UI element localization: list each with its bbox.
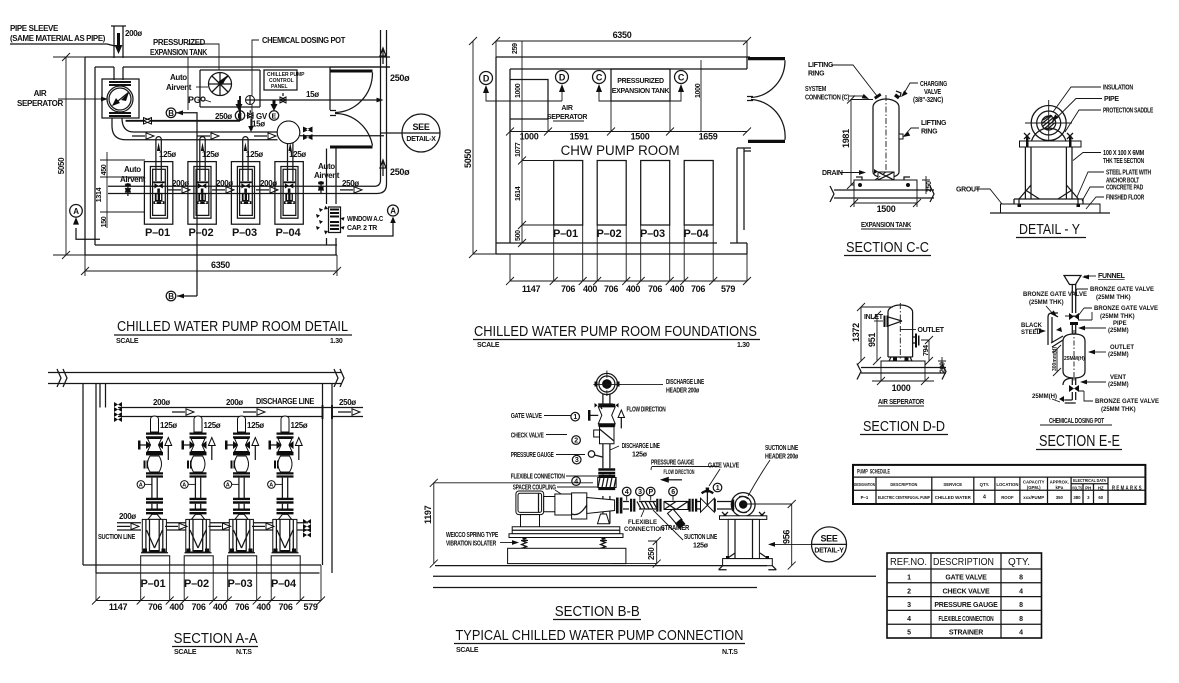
plan: valve on 15dia line — [280, 97, 286, 103]
top flange — [146, 433, 163, 439]
svg-text:706: 706 — [235, 602, 249, 612]
svg-text:15ø: 15ø — [306, 90, 319, 99]
ps: outer border — [853, 465, 1145, 504]
svg-text:25MM(H): 25MM(H) — [1064, 356, 1085, 362]
dd: air seperator label — [878, 399, 924, 406]
svg-text:PANEL: PANEL — [271, 84, 288, 90]
svg-text:(25MM THK): (25MM THK) — [1096, 295, 1131, 301]
svg-text:PRESSURE GAUGE: PRESSURE GAUGE — [511, 452, 554, 459]
svg-text:FLOW DIRECTION: FLOW DIRECTION — [627, 406, 666, 413]
cc: floor lines — [830, 186, 934, 202]
aa: pump elevation unit 1 — [137, 416, 170, 565]
svg-text:GATE VALVE: GATE VALVE — [708, 463, 739, 470]
ee: funnel — [1064, 276, 1081, 285]
dy: label tee section — [1073, 150, 1144, 165]
svg-text:N.T.S: N.T.S — [722, 649, 738, 656]
bb: dim 1197 — [423, 479, 593, 568]
svg-text:(GPM.): (GPM.) — [1027, 485, 1041, 490]
ee: label pipe right — [1078, 321, 1129, 334]
rt: header — [890, 556, 1030, 568]
dy: base plate — [1014, 198, 1083, 200]
svg-text:5050: 5050 — [57, 157, 66, 174]
found: right wall below door — [737, 148, 751, 243]
svg-text:EXPANSION TANK: EXPANSION TANK — [150, 48, 207, 57]
svg-text:FLEXIBLE CONNECTION: FLEXIBLE CONNECTION — [511, 474, 565, 481]
plan: Auto Airvent right small — [314, 162, 340, 194]
svg-text:P–04: P–04 — [271, 578, 297, 590]
svg-text:C: C — [678, 73, 685, 83]
plan: air separator box — [102, 79, 139, 118]
cc: expansion tank vessel — [873, 95, 899, 185]
cc: drain assembly — [872, 169, 894, 187]
svg-text:4: 4 — [907, 616, 911, 623]
plan: label Auto Airvent upper — [166, 73, 208, 92]
aa: flow arrows on discharge — [172, 409, 194, 415]
svg-text:1.30: 1.30 — [737, 342, 750, 349]
svg-text:PH: PH — [1085, 486, 1091, 491]
bb: spring isolator left — [521, 538, 528, 549]
svg-text:200ø: 200ø — [119, 512, 136, 521]
plan: valve on 250 line — [144, 118, 152, 124]
svg-text:VOLTS: VOLTS — [1072, 486, 1082, 491]
svg-text:300mm(H): 300mm(H) — [1052, 346, 1058, 371]
svg-text:P: P — [649, 489, 654, 496]
svg-text:PIPE SLEEVE: PIPE SLEEVE — [10, 24, 59, 33]
bb: tags 4 3 P 6 above pipe — [622, 487, 631, 496]
plan: expansion tank enclosure lines — [200, 70, 260, 107]
cc: label lifting ring left — [808, 62, 877, 96]
bb: tag 4 — [572, 477, 581, 486]
ee: label vent bottom right — [1080, 375, 1129, 388]
svg-text:HZ: HZ — [1098, 486, 1104, 491]
found: extension lines below pads — [510, 225, 747, 281]
svg-text:CHEMICAL DOSING POT: CHEMICAL DOSING POT — [1049, 418, 1105, 425]
svg-text:SPACER COUPLING: SPACER COUPLING — [513, 484, 557, 491]
svg-text:951: 951 — [867, 333, 877, 347]
svg-text:1314: 1314 — [96, 187, 103, 202]
svg-text:250ø: 250ø — [215, 112, 232, 121]
plan: pump P-01 — [144, 162, 172, 225]
svg-text:PIPE: PIPE — [1113, 321, 1127, 327]
svg-text:6350: 6350 — [613, 30, 632, 40]
svg-text:8: 8 — [1019, 602, 1023, 609]
aa: title — [172, 630, 258, 656]
svg-text:1000: 1000 — [515, 83, 522, 98]
svg-text:B: B — [168, 109, 174, 118]
svg-text:STRAINER: STRAINER — [949, 630, 983, 637]
svg-text:DESCRIPTION: DESCRIPTION — [890, 482, 917, 487]
bb: tag 1 right — [713, 483, 722, 492]
svg-text:1000: 1000 — [892, 383, 911, 393]
plan: pump P-02 — [188, 162, 216, 225]
cc: dim 250 right — [922, 176, 933, 194]
found: top wall — [496, 57, 750, 69]
svg-text:RING: RING — [808, 71, 825, 78]
svg-text:Airvent: Airvent — [166, 83, 192, 92]
svg-text:1500: 1500 — [877, 204, 896, 214]
aa: ceiling beam — [48, 373, 342, 384]
found: door leaf upper right — [748, 57, 785, 60]
cc: dim 1500 — [850, 190, 921, 214]
aa: wall sleeve at right — [323, 405, 333, 419]
plan: GV label with E tag — [248, 100, 279, 132]
svg-text:D: D — [483, 74, 490, 84]
svg-text:QTY.: QTY. — [980, 482, 990, 487]
plan: 15dia line across — [251, 99, 380, 101]
svg-text:REMARKS: REMARKS — [1112, 486, 1143, 492]
bb: concrete pad — [508, 548, 626, 563]
plan: dim 150/1314/150 left of pumps — [96, 152, 145, 228]
svg-text:P–01: P–01 — [553, 228, 578, 240]
svg-text:4: 4 — [625, 489, 629, 496]
svg-text:kPa: kPa — [1055, 485, 1063, 490]
found: marker C1 — [593, 71, 612, 102]
bb: flange pairs on pipe — [630, 499, 734, 512]
svg-text:SECTION C-C: SECTION C-C — [846, 239, 929, 256]
dy: label grout — [956, 187, 1002, 205]
svg-text:ELECTRIC CENTRIFUGAL PUMP: ELECTRIC CENTRIFUGAL PUMP — [878, 495, 930, 500]
bb: see detail-y circle — [768, 527, 847, 562]
svg-text:FUNNEL: FUNNEL — [1098, 273, 1126, 280]
svg-text:(25MM): (25MM) — [1108, 352, 1129, 358]
svg-text:SECTION E-E: SECTION E-E — [1039, 433, 1120, 450]
svg-text:P–02: P–02 — [184, 578, 209, 590]
svg-text:200: 200 — [940, 362, 947, 373]
dd: outlet nozzle right — [913, 334, 920, 348]
svg-text:PIPE: PIPE — [1104, 96, 1119, 103]
riser nipple — [151, 416, 159, 432]
svg-text:250ø: 250ø — [339, 398, 356, 407]
ee: label gate valve bottom — [1078, 391, 1159, 413]
svg-text:LOCATION: LOCATION — [996, 482, 1018, 487]
plan: pump P-03 — [231, 162, 259, 225]
svg-text:6350: 6350 — [211, 260, 230, 270]
svg-text:HEADER 200ø: HEADER 200ø — [765, 454, 799, 461]
plan: down arrow in sleeve — [115, 33, 123, 54]
svg-text:200ø: 200ø — [125, 29, 142, 38]
found: dim 5050 left — [463, 37, 510, 258]
svg-text:PROTECTION SADDLE: PROTECTION SADDLE — [1103, 108, 1153, 115]
svg-text:SECTION B-B: SECTION B-B — [555, 603, 640, 620]
svg-text:8: 8 — [1019, 616, 1023, 623]
svg-text:BRONZE GATE VALVE: BRONZE GATE VALVE — [1095, 399, 1159, 405]
dd: title — [860, 418, 948, 435]
dy: label steel plate — [1077, 170, 1151, 198]
svg-text:P–03: P–03 — [232, 227, 257, 239]
plan: expansion tank fan symbol — [209, 73, 232, 96]
svg-text:FLOW DIRECTION: FLOW DIRECTION — [664, 470, 695, 476]
bb: gate valve (1) top — [588, 404, 615, 424]
svg-text:P–01: P–01 — [141, 578, 166, 590]
svg-text:125ø: 125ø — [160, 421, 177, 430]
plan: label CHEMICAL DOSING POT — [252, 36, 345, 130]
plan: room top wall — [85, 57, 390, 67]
svg-text:SEPERATOR: SEPERATOR — [547, 114, 587, 121]
svg-text:125ø: 125ø — [247, 421, 264, 430]
dy: label insulation — [1053, 85, 1133, 113]
svg-text:4: 4 — [574, 479, 578, 486]
svg-text:PRESSURIZED: PRESSURIZED — [617, 78, 664, 85]
plan: A marker left — [70, 205, 100, 240]
svg-text:1: 1 — [716, 485, 720, 492]
svg-text:3: 3 — [575, 457, 579, 464]
drop pipe — [152, 478, 157, 498]
svg-text:INSULATION: INSULATION — [1103, 85, 1133, 92]
cc: label system connection — [805, 86, 870, 102]
svg-text:DETAIL-Y: DETAIL-Y — [814, 548, 844, 555]
svg-text:4: 4 — [1019, 588, 1023, 595]
svg-text:(25MM THK): (25MM THK) — [1101, 407, 1136, 413]
cc: title — [844, 239, 931, 256]
svg-text:N.T.S: N.T.S — [236, 649, 252, 656]
svg-text:1000: 1000 — [520, 132, 539, 142]
bb: flange mid — [598, 424, 615, 427]
bb: flange pair above flex — [598, 468, 615, 474]
ee: label gate valve left — [1023, 292, 1087, 319]
svg-text:400: 400 — [256, 602, 270, 612]
svg-text:xxx/PUMP: xxx/PUMP — [1023, 495, 1044, 500]
cc: expansion tank label — [861, 222, 911, 229]
ee: vertical pipe top — [1072, 285, 1075, 314]
svg-text:DESIGNATION: DESIGNATION — [854, 482, 875, 487]
plan: pump P-04 — [275, 162, 303, 225]
svg-text:60: 60 — [1098, 495, 1103, 500]
svg-text:380: 380 — [1073, 495, 1081, 500]
dd: dim 1000 — [872, 368, 934, 394]
see detail-x marker circle — [380, 114, 440, 152]
svg-text:A: A — [73, 207, 79, 216]
svg-text:CHEMICAL DOSING POT: CHEMICAL DOSING POT — [262, 36, 345, 45]
svg-text:DETAIL-X: DETAIL-X — [406, 136, 436, 143]
plan: dim 5050 left — [53, 53, 95, 259]
svg-text:400: 400 — [169, 602, 183, 612]
ee: label gate valve upper right — [1065, 306, 1158, 320]
dd: dim 200 — [938, 357, 947, 373]
svg-text:250ø: 250ø — [342, 179, 359, 188]
bb: coupling blocks — [544, 494, 572, 515]
cc: label drain — [822, 170, 866, 177]
plan: label PRESSURIZED EXPANSION TANK — [150, 38, 219, 110]
plan: A marker right — [347, 205, 399, 236]
svg-text:REF.NO.: REF.NO. — [890, 556, 927, 568]
svg-text:1659: 1659 — [699, 132, 718, 142]
ps: header labels — [854, 478, 1106, 491]
svg-text:APPROX.: APPROX. — [1050, 480, 1069, 485]
found: air seperator label — [547, 105, 587, 121]
found: dim 1000 rotated left — [515, 60, 702, 131]
dy: pipe section circles — [1025, 100, 1072, 146]
svg-text:SYSTEM: SYSTEM — [805, 86, 826, 93]
svg-text:250ø: 250ø — [390, 73, 410, 83]
svg-text:400: 400 — [213, 602, 227, 612]
found: dim 6350 top — [492, 30, 751, 69]
aa: suction break marks right — [303, 519, 311, 538]
svg-text:DETAIL - Y: DETAIL - Y — [1019, 221, 1080, 238]
plan: door upper leaf — [330, 70, 373, 73]
bb: gate valve on pipe — [701, 488, 715, 513]
svg-text:125ø: 125ø — [204, 421, 221, 430]
bb: gate valve label right — [708, 463, 739, 487]
svg-text:EXPANSION TANK: EXPANSION TANK — [612, 88, 670, 95]
svg-text:P–02: P–02 — [597, 228, 622, 240]
svg-text:100 X 100 X 6MM: 100 X 100 X 6MM — [1103, 150, 1144, 157]
svg-text:BRONZE GATE VALVE: BRONZE GATE VALVE — [1023, 292, 1087, 298]
flange pair below check valve — [146, 472, 163, 477]
svg-text:250ø: 250ø — [390, 167, 410, 177]
aa: left wall — [83, 384, 96, 574]
svg-text:(25MM THK): (25MM THK) — [1029, 300, 1064, 306]
svg-text:SUCTION LINE: SUCTION LINE — [98, 534, 136, 541]
svg-text:579: 579 — [721, 284, 735, 294]
plan: label PIPE SLEEVE (SAME MATERIAL AS PIPE) — [10, 24, 115, 46]
found: foundation pad F1 — [554, 161, 583, 226]
found: left wall — [496, 57, 510, 243]
dy: tee columns — [1025, 147, 1072, 199]
svg-text:C: C — [596, 73, 603, 83]
rt: rows — [907, 575, 1023, 637]
dy: concrete pad — [1001, 204, 1101, 213]
plan: B marker upper — [166, 108, 197, 296]
found: pressurized expansion tank label box — [611, 69, 670, 101]
cc: side lifting lug — [899, 134, 903, 139]
dd: dim 1372 — [851, 303, 893, 365]
ps: data row — [861, 495, 1104, 501]
svg-text:TYPICAL CHILLED WATER PUMP CON: TYPICAL CHILLED WATER PUMP CONNECTION — [456, 627, 744, 644]
svg-text:P–04: P–04 — [684, 228, 710, 240]
plan: pump suction line across pumps — [108, 180, 387, 194]
svg-text:FLEXIBLE: FLEXIBLE — [628, 520, 657, 526]
plan: door lower leaf — [330, 146, 373, 149]
svg-text:A: A — [139, 482, 143, 488]
svg-text:8: 8 — [1019, 575, 1023, 582]
found: air separator box plan — [510, 80, 548, 120]
rt: outer border — [887, 553, 1042, 638]
svg-text:350: 350 — [1056, 495, 1064, 500]
svg-text:450: 450 — [101, 164, 108, 175]
ps: header row separators — [853, 477, 1145, 503]
svg-text:RING: RING — [921, 129, 938, 136]
plan: small pump circle on 15dia line — [246, 96, 255, 105]
bb: label discharge line 125 — [610, 443, 660, 458]
rt: grid — [887, 553, 1042, 638]
svg-text:HEADER 200ø: HEADER 200ø — [666, 388, 700, 395]
dy: saddle plate — [1020, 141, 1082, 147]
dd: air separator vessel — [888, 303, 913, 362]
bb: vibration isolator label — [446, 532, 519, 548]
found: bottom dim row 1147 706 400 ... 579 — [506, 277, 751, 294]
svg-text:CONNECTION: CONNECTION — [624, 527, 664, 533]
ee: label black steel — [1021, 323, 1046, 336]
bb: pipe run down — [603, 444, 610, 524]
svg-text:706: 706 — [191, 602, 205, 612]
bb: label discharge line header — [618, 379, 705, 395]
svg-text:400: 400 — [583, 284, 597, 294]
svg-text:SUCTION LINE: SUCTION LINE — [765, 445, 798, 452]
svg-text:CONCRETE PAD: CONCRETE PAD — [1106, 185, 1143, 192]
dy: title — [1016, 221, 1086, 238]
bb: header pedestal — [719, 512, 777, 570]
svg-text:579: 579 — [303, 602, 317, 612]
bb: flexible connection small label — [624, 510, 664, 533]
bb: pump motor — [516, 491, 544, 527]
plan: chiller pump control panel box — [264, 70, 305, 90]
svg-text:CHILLED WATER PUMP ROOM DETAIL: CHILLED WATER PUMP ROOM DETAIL — [117, 319, 348, 335]
svg-text:956: 956 — [782, 530, 792, 544]
svg-text:400: 400 — [670, 284, 684, 294]
plan: room left wall — [85, 57, 95, 255]
svg-text:P–03: P–03 — [640, 228, 665, 240]
svg-text:2: 2 — [907, 588, 911, 595]
bb: pressure gauge (3) — [588, 451, 602, 457]
found: foundation pad F3 — [641, 161, 670, 226]
svg-text:1000: 1000 — [695, 83, 702, 98]
svg-text:(25MM): (25MM) — [1108, 328, 1129, 334]
bb: suction line header label — [748, 445, 799, 496]
svg-text:(SAME MATERIAL AS PIPE): (SAME MATERIAL AS PIPE) — [10, 34, 106, 43]
svg-text:1147: 1147 — [109, 602, 128, 612]
dy: finished floor line — [990, 212, 1110, 214]
svg-text:BRONZE GATE VALVE: BRONZE GATE VALVE — [1094, 306, 1158, 312]
plan: dim 6350 bottom — [81, 255, 341, 276]
svg-text:3: 3 — [1087, 495, 1090, 500]
plan: air separator flanges — [109, 82, 131, 116]
svg-text:6: 6 — [671, 489, 675, 496]
svg-text:CAP. 2 TR: CAP. 2 TR — [347, 225, 377, 232]
svg-text:125ø: 125ø — [632, 452, 648, 459]
ee: valve on top pipe — [1069, 313, 1079, 334]
svg-text:1372: 1372 — [851, 323, 861, 342]
dd: base pad — [881, 361, 925, 368]
svg-text:SEPERATOR: SEPERATOR — [17, 99, 63, 108]
svg-text:1614: 1614 — [515, 186, 522, 201]
svg-text:PUMP SCHEDULE: PUMP SCHEDULE — [857, 470, 890, 476]
svg-text:250: 250 — [647, 547, 656, 560]
bb: ground lines — [433, 566, 876, 588]
svg-text:GROUT: GROUT — [956, 187, 981, 194]
svg-text:ROOF: ROOF — [1001, 495, 1014, 500]
bb: riser pipe below header — [603, 394, 610, 404]
dd: dim 951 — [867, 311, 881, 365]
plan: PG gauge label — [188, 95, 211, 105]
svg-text:706: 706 — [278, 602, 292, 612]
svg-text:CONNECTION (C): CONNECTION (C) — [805, 95, 849, 102]
svg-text:AIR SEPERATOR: AIR SEPERATOR — [878, 399, 924, 406]
svg-text:AIR: AIR — [34, 89, 47, 98]
svg-text:QTY.: QTY. — [1008, 556, 1030, 568]
svg-text:P–1: P–1 — [861, 495, 869, 500]
plan: title — [114, 319, 352, 345]
svg-text:PRESSURE GAUGE: PRESSURE GAUGE — [934, 602, 998, 609]
bb: flange below header — [598, 404, 615, 407]
svg-text:VENT: VENT — [1110, 375, 1126, 381]
ee: left inlet pipe with elbow — [1048, 313, 1063, 347]
svg-text:SECTION D-D: SECTION D-D — [863, 418, 945, 435]
plan: air separator circle — [109, 88, 131, 110]
svg-text:SERVICE: SERVICE — [943, 482, 962, 487]
cc: label lifting ring right — [902, 120, 947, 139]
found: marker C2 — [670, 71, 688, 102]
svg-text:CHECK VALVE: CHECK VALVE — [943, 588, 990, 595]
svg-text:1500: 1500 — [631, 132, 650, 142]
svg-text:SCALE: SCALE — [174, 649, 197, 656]
svg-text:EXPANSION TANK: EXPANSION TANK — [861, 222, 911, 229]
svg-text:200ø: 200ø — [216, 179, 233, 188]
svg-text:200ø: 200ø — [153, 398, 170, 407]
svg-text:DRAIN: DRAIN — [822, 170, 843, 177]
svg-text:B: B — [168, 292, 174, 301]
svg-text:STRAINER: STRAINER — [661, 525, 689, 532]
pedestal — [141, 556, 170, 565]
